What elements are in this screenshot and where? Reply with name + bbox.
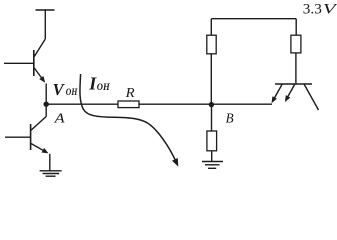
svg-text:3.3: 3.3 bbox=[303, 1, 322, 17]
svg-text:A: A bbox=[53, 110, 65, 125]
svg-text:V: V bbox=[53, 80, 66, 99]
svg-text:R: R bbox=[125, 86, 136, 101]
svg-text:B: B bbox=[226, 110, 234, 125]
svg-text:OH: OH bbox=[97, 82, 110, 93]
svg-text:V: V bbox=[323, 1, 337, 17]
svg-text:OH: OH bbox=[66, 88, 78, 98]
